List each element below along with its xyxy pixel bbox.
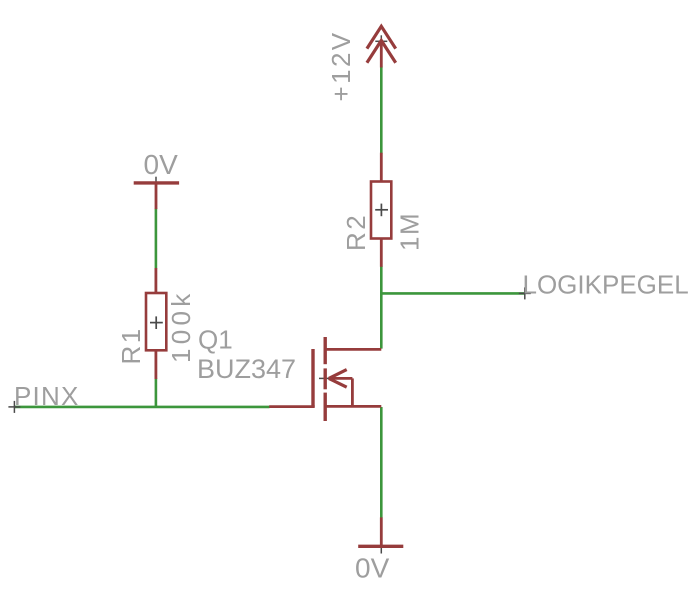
svg-text:1M: 1M (395, 212, 425, 251)
svg-text:0V: 0V (144, 149, 179, 180)
wire from Q1 source to 0V (380, 407, 383, 518)
gate bar (311, 349, 314, 407)
channel dash body (324, 368, 327, 389)
pin cross at Q1 bulk (319, 372, 331, 384)
transistor Q1 (269, 337, 381, 421)
bulk connector (351, 378, 354, 406)
node PINX cross (8, 401, 20, 413)
source lead (325, 405, 381, 408)
svg-text:R2: R2 (341, 213, 371, 251)
resistor R2 (371, 153, 391, 267)
wire from R1 bottom to PINX net (155, 379, 158, 407)
node LOGIKPEGEL cross (519, 287, 531, 299)
svg-text:Q1: Q1 (198, 325, 233, 355)
wire PINX to Q1 gate (14, 406, 270, 409)
svg-text:0V: 0V (355, 553, 390, 584)
wire from R2 bottom to Q1 drain (380, 266, 383, 349)
origin cross of R2 (375, 204, 388, 217)
svg-text:BUZ347: BUZ347 (197, 354, 296, 384)
gate lead (269, 405, 315, 408)
svg-text:+12V: +12V (326, 30, 356, 101)
wire from 0V top to R1 (155, 209, 158, 269)
channel dash drain (324, 337, 327, 364)
origin cross of R1 (150, 316, 163, 329)
svg-text:PINX: PINX (14, 381, 79, 411)
bulk arrow head (329, 370, 347, 379)
pin cross at 0V top origin (150, 177, 162, 189)
svg-text:R1: R1 (116, 326, 146, 364)
resistor R1 (146, 268, 166, 379)
wire from +12V to R2 top (380, 67, 383, 154)
bulk arrow shaft (329, 377, 353, 380)
channel dash source (324, 393, 327, 421)
drain lead (325, 348, 381, 351)
wire LOGIKPEGEL branch (380, 292, 525, 295)
supply 0V bottom (358, 517, 403, 546)
svg-text:100k: 100k (166, 289, 196, 363)
supply +12V symbol (367, 26, 396, 67)
supply 0V top (134, 183, 179, 209)
pin cross at +12V origin (375, 35, 387, 47)
svg-text:LOGIKPEGEL: LOGIKPEGEL (523, 270, 689, 300)
pin cross at 0V bottom origin (375, 540, 387, 553)
